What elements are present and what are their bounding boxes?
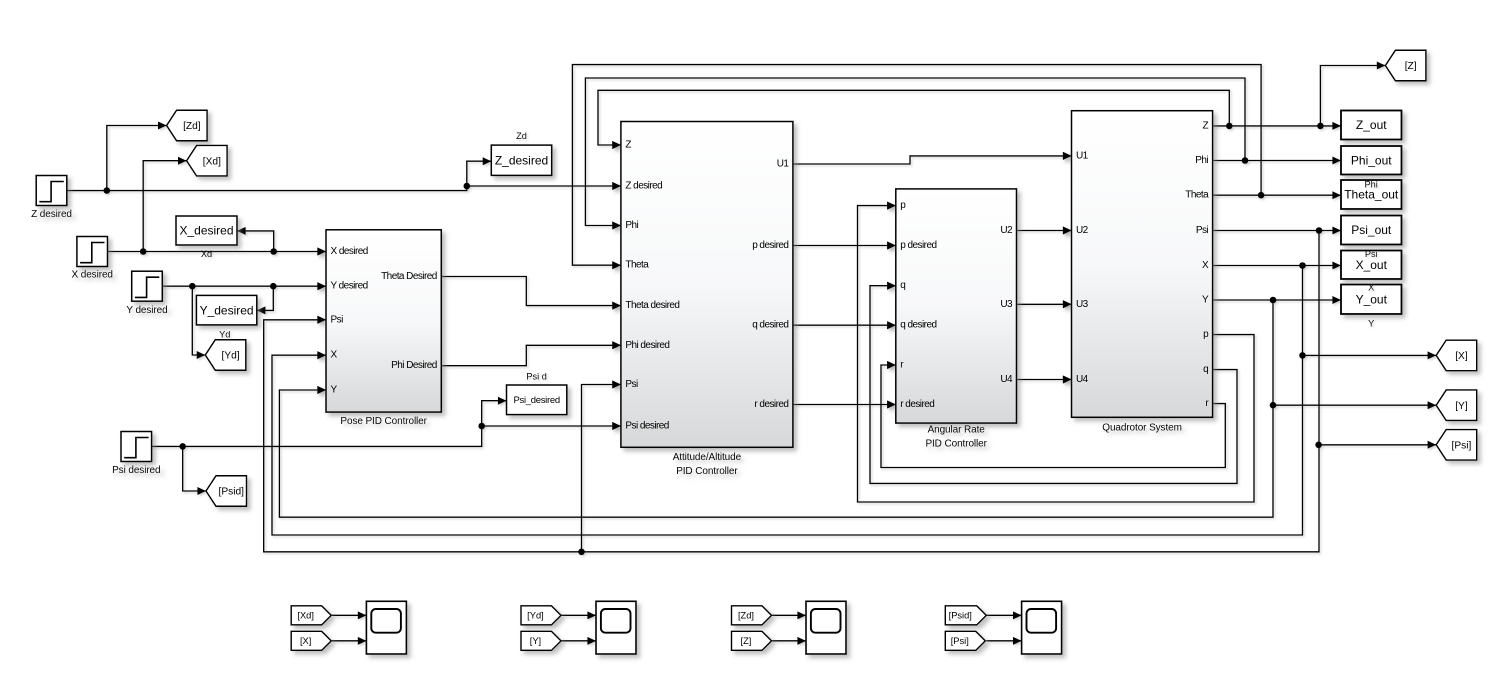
wire AngularRate.U3 to Quadrotor.U3 <box>1017 303 1072 305</box>
wire p feedback to AngularRate.p <box>858 206 1255 502</box>
wire tap to goto [Psid] <box>183 446 206 491</box>
svg-text:Zd: Zd <box>516 131 527 141</box>
goto tag [Xd] <box>187 145 228 176</box>
scope Z <box>806 601 846 654</box>
wire Psi feedback (down right side) <box>264 231 1319 552</box>
scope X <box>366 601 406 654</box>
goto tag [X] <box>1436 340 1477 371</box>
svg-text:[Psi]: [Psi] <box>951 636 969 646</box>
from tag [X] (scope 1) <box>291 631 331 650</box>
svg-text:[Z]: [Z] <box>1405 61 1417 72</box>
subsystem Pose PID Controller <box>326 230 441 412</box>
goto tag [Psi] <box>1436 430 1477 461</box>
wire from-tag to scope (lower) <box>772 640 807 642</box>
wire Psi tap to goto [Psi] <box>1319 444 1436 446</box>
svg-text:Phi_out: Phi_out <box>1351 153 1392 167</box>
svg-text:X: X <box>1202 260 1209 271</box>
svg-text:Yd: Yd <box>219 330 230 340</box>
wire Quadrotor.Phi to Phi_out <box>1213 160 1341 162</box>
svg-text:Y: Y <box>331 385 338 396</box>
wire Quadrotor.Theta to Theta_out <box>1213 194 1341 196</box>
step source Y desired <box>132 271 163 301</box>
svg-text:[X]: [X] <box>1455 351 1468 362</box>
svg-text:q: q <box>1203 364 1208 375</box>
svg-text:U4: U4 <box>1076 374 1089 385</box>
svg-text:Z: Z <box>1203 120 1209 131</box>
svg-text:Theta_out: Theta_out <box>1344 188 1399 202</box>
svg-text:X desired: X desired <box>72 269 113 280</box>
svg-text:Xd: Xd <box>201 249 212 259</box>
svg-text:[Psid]: [Psid] <box>949 611 972 621</box>
svg-text:Y: Y <box>1368 318 1374 328</box>
wire Psi tap to Attitude.Psi <box>582 385 621 552</box>
wire from-tag to scope (lower) <box>331 640 366 642</box>
to-workspace Z_desired <box>491 145 551 175</box>
svg-text:X: X <box>1368 283 1374 293</box>
outport block Y_out <box>1341 285 1402 315</box>
svg-text:Z_desired: Z_desired <box>495 153 548 167</box>
svg-text:Y_desired: Y_desired <box>200 303 254 317</box>
wire from-tag to scope (upper) <box>772 614 807 616</box>
svg-text:Y desired: Y desired <box>126 305 167 316</box>
svg-text:Theta: Theta <box>1185 190 1209 201</box>
svg-text:[Y]: [Y] <box>1455 401 1468 412</box>
wire from-tag to scope (lower) <box>986 640 1021 642</box>
svg-text:r desired: r desired <box>754 399 788 410</box>
wire X desired step to Pose.X desired (with taps) <box>108 251 327 253</box>
from tag [Psid] (scope 4) <box>945 606 986 625</box>
svg-text:[X]: [X] <box>300 636 311 646</box>
svg-text:U1: U1 <box>777 159 790 170</box>
wire tap to goto [Xd] <box>143 161 186 252</box>
wire Y feedback to Pose.Y <box>279 300 1273 517</box>
svg-text:Z_out: Z_out <box>1356 118 1387 132</box>
svg-text:Pose PID Controller: Pose PID Controller <box>340 416 427 427</box>
wire Attitude.q desired to AngularRate.q desired <box>793 324 896 326</box>
wire from-tag to scope (lower) <box>561 640 596 642</box>
svg-text:X: X <box>331 350 338 361</box>
svg-text:Psi: Psi <box>1196 225 1209 236</box>
wire from-tag to scope (upper) <box>561 614 596 616</box>
svg-text:U2: U2 <box>1000 225 1013 236</box>
wire Attitude.r desired to AngularRate.r desired <box>793 404 896 406</box>
svg-text:Psi desired: Psi desired <box>112 465 160 476</box>
svg-text:Z desired: Z desired <box>31 209 72 220</box>
wire Phi feedback to Attitude.Phi <box>585 78 1245 226</box>
svg-text:Y desired: Y desired <box>331 281 368 292</box>
svg-text:U3: U3 <box>1000 299 1013 310</box>
wire Z desired step to Attitude.Z desired (with taps) <box>67 186 621 191</box>
svg-text:[Xd]: [Xd] <box>297 611 314 621</box>
subsystem Angular Rate PID Controller <box>896 189 1017 423</box>
goto tag [Y] <box>1436 390 1477 421</box>
svg-text:Psi: Psi <box>1365 249 1378 259</box>
svg-text:PID Controller: PID Controller <box>925 439 987 450</box>
wire Quadrotor.Z to Z_out <box>1213 125 1341 127</box>
svg-text:Phi: Phi <box>1365 180 1378 190</box>
svg-text:Phi: Phi <box>625 220 638 231</box>
svg-text:Psi_out: Psi_out <box>1351 223 1392 237</box>
wire tap to goto [Yd] <box>192 286 205 355</box>
wire Quadrotor.Psi to Psi_out <box>1213 230 1341 232</box>
to-workspace Y_desired <box>196 295 256 325</box>
svg-text:Attitude/Altitude: Attitude/Altitude <box>673 452 742 463</box>
subsystem Attitude/Altitude PID Controller <box>621 122 793 448</box>
svg-text:p desired: p desired <box>752 240 788 251</box>
wire X tap to goto [X] <box>1303 354 1437 356</box>
svg-text:q desired: q desired <box>900 320 936 331</box>
wire Y desired step to Pose.Y desired (with taps) <box>162 285 326 287</box>
svg-text:X_desired: X_desired <box>179 224 233 238</box>
goto tag [Yd] <box>205 340 246 371</box>
outport block Theta_out <box>1341 180 1402 209</box>
to-workspace Psi_desired <box>507 385 567 415</box>
scope Psi <box>1022 601 1062 654</box>
svg-text:q: q <box>900 280 905 291</box>
svg-text:Psi desired: Psi desired <box>625 421 668 432</box>
svg-text:Quadrotor System: Quadrotor System <box>1102 422 1182 433</box>
svg-text:[Yd]: [Yd] <box>221 351 239 362</box>
scope Y <box>596 601 636 654</box>
from tag [Yd] (scope 2) <box>521 606 561 625</box>
svg-text:Z: Z <box>625 140 631 151</box>
wire Psi desired step to Attitude.Psi desired (with taps) <box>152 426 621 446</box>
svg-text:[Y]: [Y] <box>530 636 541 646</box>
svg-text:PID Controller: PID Controller <box>676 466 738 477</box>
goto tag [Psid] <box>206 476 247 507</box>
goto tag [Zd] <box>167 110 208 141</box>
svg-text:Psi d: Psi d <box>526 372 546 382</box>
wire tap to Psi_desired workspace <box>482 401 507 426</box>
svg-text:Y_out: Y_out <box>1356 292 1388 306</box>
from tag [Z] (scope 3) <box>732 631 772 650</box>
wire X feedback to Pose.X <box>272 266 1303 536</box>
wire tap to Z_desired workspace <box>467 161 492 186</box>
wire from-tag to scope (upper) <box>331 614 366 616</box>
subsystem Quadrotor System <box>1072 111 1213 418</box>
svg-text:Theta Desired: Theta Desired <box>381 271 437 282</box>
svg-text:U4: U4 <box>1000 374 1013 385</box>
svg-text:U1: U1 <box>1076 150 1089 161</box>
wire AngularRate.U2 to Quadrotor.U2 <box>1017 230 1072 232</box>
svg-text:q desired: q desired <box>752 320 788 331</box>
wire Attitude.U1 to Quadrotor.U1 <box>793 156 1072 164</box>
svg-text:Z desired: Z desired <box>625 181 662 192</box>
svg-text:U2: U2 <box>1076 225 1089 236</box>
svg-text:Psi: Psi <box>625 379 638 390</box>
from tag [Xd] (scope 1) <box>291 606 331 625</box>
from tag [Y] (scope 2) <box>521 631 561 650</box>
svg-text:X_out: X_out <box>1356 258 1388 272</box>
wire Pose.Phi Desired to Attitude.Phi desired <box>441 345 621 365</box>
svg-text:U3: U3 <box>1076 299 1089 310</box>
wire tap to goto [Zd] <box>107 126 167 191</box>
svg-text:[Psid]: [Psid] <box>219 487 245 498</box>
svg-text:Theta desired: Theta desired <box>625 300 679 311</box>
svg-text:X desired: X desired <box>331 246 368 257</box>
svg-text:[Psi]: [Psi] <box>1452 440 1472 451</box>
svg-text:Phi: Phi <box>1195 155 1208 166</box>
wire r feedback to AngularRate.r <box>881 365 1225 468</box>
step source Psi desired <box>121 432 152 462</box>
wire Theta feedback to Attitude.Theta <box>572 65 1261 266</box>
svg-text:[Zd]: [Zd] <box>738 611 754 621</box>
from tag [Psi] (scope 4) <box>945 631 985 650</box>
outport block Phi_out <box>1341 146 1402 175</box>
wire Pose.Theta Desired to Attitude.Theta desired <box>441 277 621 306</box>
step source Z desired <box>36 176 67 206</box>
from tag [Zd] (scope 3) <box>732 606 772 625</box>
svg-text:Phi Desired: Phi Desired <box>391 360 437 371</box>
wire Y tap to goto [Y] <box>1273 404 1436 406</box>
wire tap to Y_desired workspace <box>257 286 274 310</box>
svg-text:Theta: Theta <box>625 260 649 271</box>
svg-text:[Zd]: [Zd] <box>183 121 201 132</box>
wire tap to X_desired workspace <box>237 231 274 252</box>
svg-text:[Z]: [Z] <box>741 636 752 646</box>
wire q feedback to AngularRate.q <box>870 286 1237 484</box>
outport block X_out <box>1341 251 1402 280</box>
wire Quadrotor.X to X_out <box>1213 265 1341 267</box>
svg-text:Phi desired: Phi desired <box>625 340 669 351</box>
svg-text:Angular Rate: Angular Rate <box>928 425 986 436</box>
wire Z feedback to Attitude.Z <box>598 90 1229 145</box>
wire Attitude.p desired to AngularRate.p desired <box>793 245 896 247</box>
wire Quadrotor.Y to Y_out <box>1213 299 1341 301</box>
outport block Psi_out <box>1341 216 1402 245</box>
to-workspace X_desired <box>176 216 237 245</box>
outport block Z_out <box>1341 111 1402 140</box>
svg-text:Psi: Psi <box>331 314 344 325</box>
wire Z tap to goto [Z] <box>1320 66 1385 126</box>
wire AngularRate.U4 to Quadrotor.U4 <box>1017 379 1072 381</box>
step source X desired <box>77 237 108 267</box>
svg-text:r desired: r desired <box>900 399 934 410</box>
svg-text:p desired: p desired <box>900 240 936 251</box>
svg-text:[Yd]: [Yd] <box>527 611 544 621</box>
svg-text:[Xd]: [Xd] <box>203 156 221 167</box>
svg-text:Y: Y <box>1202 295 1209 306</box>
svg-text:Psi_desired: Psi_desired <box>513 395 559 406</box>
goto tag [Z] <box>1385 50 1426 81</box>
wire from-tag to scope (upper) <box>986 614 1021 616</box>
